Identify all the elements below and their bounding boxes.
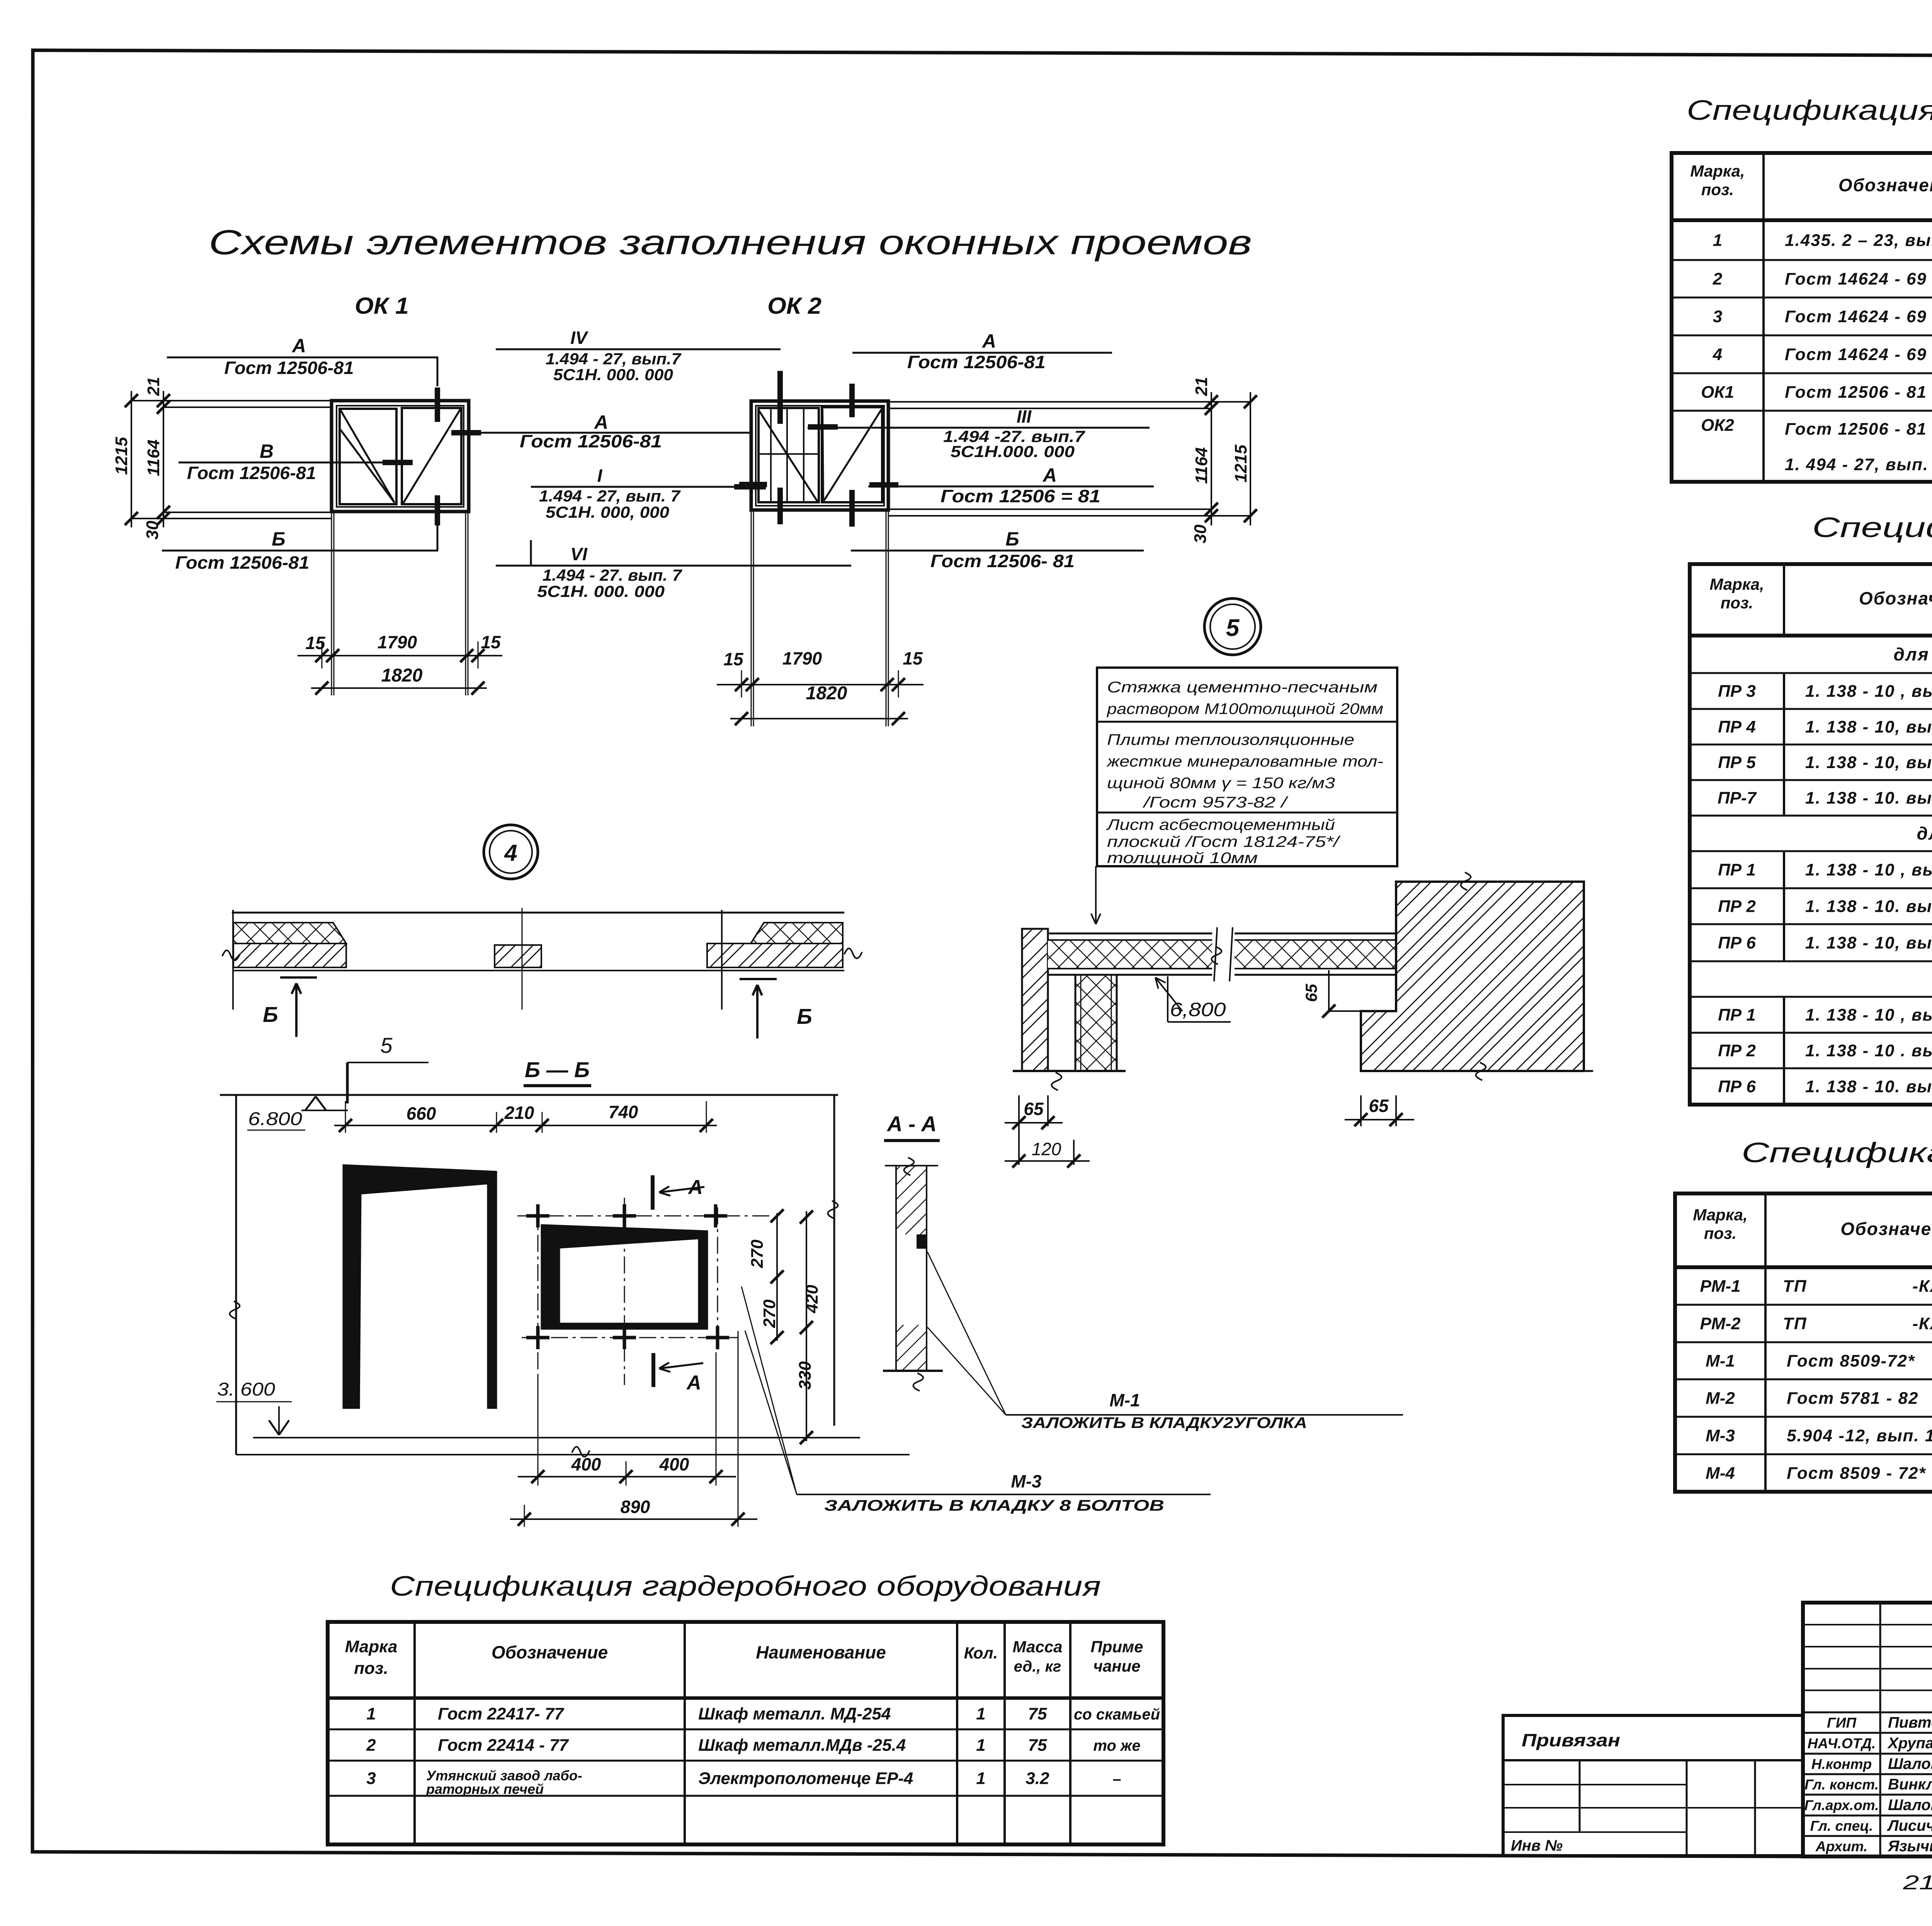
window schematic OK1 label [355, 293, 409, 319]
dimension 65 at slab step [1302, 970, 1361, 1018]
svg-text:5.904 -12, вып. 1-35: 5.904 -12, вып. 1-35 [1787, 1426, 1932, 1445]
svg-text:Гост 12506-81: Гост 12506-81 [520, 431, 662, 451]
svg-text:ОК 1: ОК 1 [355, 293, 409, 319]
svg-text:1. 138 - 10. вып. 1: 1. 138 - 10. вып. 1 [1805, 789, 1932, 807]
svg-text:1. 138 - 10 , вып. 3: 1. 138 - 10 , вып. 3 [1805, 1006, 1932, 1025]
left attachment table Привязан [1503, 1715, 1803, 1856]
svg-text:чание: чание [1093, 1657, 1140, 1675]
svg-text:Язычьян: Язычьян [1888, 1838, 1932, 1855]
svg-text:1. 138 - 10 , вып. 3: 1. 138 - 10 , вып. 3 [1805, 860, 1932, 879]
svg-text:Гост 8509-72*: Гост 8509-72* [1787, 1351, 1915, 1370]
dimension 65 bottom right of node 5 [1345, 1095, 1414, 1126]
svg-text:Гост 22417- 77: Гост 22417- 77 [438, 1705, 565, 1724]
svg-text:Кол.: Кол. [964, 1644, 998, 1662]
svg-text:Стяжка цементно-песчаным: Стяжка цементно-песчаным [1107, 679, 1378, 696]
section arrow Б left [263, 977, 317, 1037]
svg-text:330: 330 [796, 1361, 815, 1390]
svg-text:1.494 - 27, вып. 7: 1.494 - 27, вып. 7 [539, 487, 681, 505]
wall line right of Б-Б [828, 1095, 838, 1426]
svg-text:1.494 - 27, вып.7: 1.494 - 27, вып.7 [546, 350, 682, 368]
window OK2 right sash [822, 407, 882, 502]
svg-text:2: 2 [366, 1736, 376, 1755]
svg-text:1820: 1820 [806, 683, 847, 704]
svg-text:890: 890 [621, 1497, 650, 1517]
dimension chain 420-330 right of frame [796, 1210, 821, 1444]
main title: Схемы элементов заполнения оконных проемов [209, 223, 1252, 262]
svg-text:поз.: поз. [1721, 594, 1753, 612]
right masonry band hatched [707, 943, 843, 967]
svg-text:Гл. спец.: Гл. спец. [1810, 1818, 1873, 1834]
svg-text:А - А: А - А [886, 1112, 937, 1136]
leader A top for OK1 [167, 335, 438, 422]
svg-text:Гл.арх.от.: Гл.арх.от. [1804, 1797, 1879, 1813]
right insulation block cross-hatched [751, 923, 843, 943]
svg-text:Шкаф металл.МДв -25.4: Шкаф металл.МДв -25.4 [698, 1736, 906, 1755]
svg-text:щиной 80мм γ = 150 кг/м3: щиной 80мм γ = 150 кг/м3 [1107, 775, 1335, 792]
wall line left of Б-Б [230, 1095, 240, 1455]
svg-text:Приме: Приме [1091, 1638, 1143, 1656]
node 5 detail: floor line under wall [1013, 1071, 1126, 1090]
svg-text:для t°н = -20°C ; -30°C ; -: для t°н = -20°C ; -30°C ; - 40°C . [1894, 644, 1932, 665]
svg-text:Масса: Масса [1013, 1638, 1063, 1656]
svg-text:III: III [1017, 406, 1032, 427]
middle pier hatched [495, 945, 541, 967]
vertical dimension chain 21-1164-30 left of OK1 [112, 377, 332, 540]
svg-text:Б: Б [797, 1004, 812, 1028]
svg-text:420: 420 [803, 1285, 821, 1314]
svg-text:ПР 6: ПР 6 [1718, 1077, 1756, 1096]
svg-text:раторных печей: раторных печей [426, 1781, 544, 1797]
door frame left (black) of section Б-Б [343, 1165, 497, 1408]
svg-text:поз.: поз. [1704, 1224, 1736, 1243]
svg-text:Спецификация перемычек: Спецификация перемычек [1812, 512, 1932, 543]
left insulation block cross-hatched [233, 923, 346, 943]
table: спецификация закладных изделий [1675, 1193, 1932, 1492]
window OK2 left sash with vent panes [759, 408, 819, 502]
svg-text:М-3: М-3 [1011, 1471, 1042, 1491]
table title: Спецификация закладных изделий [1742, 1137, 1932, 1168]
leader Б bottom for OK2 [851, 528, 1144, 571]
svg-text:ПР 6: ПР 6 [1718, 933, 1756, 952]
svg-text:ПР 4: ПР 4 [1718, 717, 1756, 736]
elevation 3.600 of section Б-Б [216, 1379, 292, 1435]
leader I 1.494-27 вып.7 5С1Н.000,000 [531, 466, 766, 521]
svg-text:270: 270 [748, 1239, 767, 1268]
svg-text:Хрупало: Хрупало [1887, 1735, 1932, 1752]
svg-text:Привязан: Привязан [1522, 1730, 1620, 1750]
svg-text:М-3: М-3 [1706, 1426, 1735, 1445]
svg-text:жесткие минераловатные тол-: жесткие минераловатные тол- [1106, 753, 1383, 770]
svg-text:1.494 - 27. вып. 7: 1.494 - 27. вып. 7 [543, 566, 682, 584]
detail node 5 marker circle [1204, 598, 1261, 655]
svg-text:Пивторак: Пивторак [1888, 1714, 1932, 1731]
note box leader arrow [1091, 866, 1100, 924]
svg-text:21: 21 [144, 377, 163, 396]
svg-text:15: 15 [481, 632, 501, 652]
svg-text:1: 1 [976, 1769, 985, 1788]
floor level lines of section Б-Б [236, 1438, 910, 1457]
section arrow А bottom [653, 1353, 703, 1394]
svg-text:М-1: М-1 [1706, 1351, 1735, 1370]
svg-text:1790: 1790 [782, 648, 822, 668]
svg-text:1: 1 [1713, 231, 1722, 250]
svg-text:то же: то же [1093, 1737, 1140, 1754]
svg-text:В: В [260, 440, 274, 462]
svg-text:1790: 1790 [378, 632, 417, 652]
dimension 890 under frame [510, 1331, 757, 1527]
svg-text:ТП: ТП [1783, 1277, 1807, 1296]
svg-text:I: I [597, 466, 603, 486]
svg-text:/Гост 9573-82 /: /Гост 9573-82 / [1142, 794, 1289, 811]
svg-text:1215: 1215 [1231, 445, 1250, 483]
svg-text:Н.контр: Н.контр [1811, 1756, 1872, 1772]
svg-text:ОК1: ОК1 [1701, 383, 1734, 402]
centrelines of anchor frame [517, 1198, 772, 1385]
svg-text:Гост 12506 - 81: Гост 12506 - 81 [1785, 383, 1927, 402]
svg-text:поз.: поз. [1701, 180, 1734, 199]
leader A right for OK1 [451, 411, 750, 451]
leader 5 to section mark [347, 1033, 429, 1103]
elevation label 6,800 on node 5 [1155, 976, 1231, 1022]
svg-text:А: А [687, 1176, 703, 1198]
svg-text:Лисичкин: Лисичкин [1887, 1817, 1932, 1834]
svg-text:3. 600: 3. 600 [217, 1379, 275, 1400]
detail node 4 marker circle [484, 825, 538, 879]
table: спецификация элементов заполнения проемов [1672, 153, 1932, 482]
horizontal dimension 15-1790-15 under OK2 [717, 510, 923, 726]
svg-text:толщиной 10мм: толщиной 10мм [1107, 850, 1258, 867]
leader B for OK1 [179, 440, 413, 483]
svg-text:3.2: 3.2 [1026, 1769, 1049, 1788]
svg-text:Спецификация элементов зап: Спецификация элементов заполнения проемо… [1687, 95, 1932, 126]
dimension 400-400 under frame [518, 1352, 736, 1486]
svg-text:1. 494 - 27, вып. 7: 1. 494 - 27, вып. 7 [1785, 455, 1932, 474]
svg-text:6,800: 6,800 [1170, 999, 1226, 1020]
window OK1 frame [332, 401, 469, 512]
svg-text:ПР 2: ПР 2 [1718, 1041, 1756, 1060]
svg-text:IV: IV [570, 328, 588, 348]
svg-text:5С1Н. 000. 000: 5С1Н. 000. 000 [553, 365, 673, 384]
svg-text:1215: 1215 [112, 437, 131, 475]
svg-text:1. 138 - 10, вып. 1: 1. 138 - 10, вып. 1 [1805, 717, 1932, 736]
svg-text:210: 210 [504, 1103, 534, 1123]
svg-text:-КЖИ-280-СБ: -КЖИ-280-СБ [1912, 1277, 1932, 1296]
svg-text:1: 1 [976, 1736, 985, 1755]
svg-text:400: 400 [659, 1454, 689, 1474]
leader VI 1.494-27 вып.7 5С1Н.000.000 [496, 540, 851, 600]
svg-text:Обозначение: Обозначение [1840, 1219, 1932, 1239]
table title: Спецификация элементов заполнения проемов [1687, 95, 1932, 126]
svg-text:Гост 12506- 81: Гост 12506- 81 [930, 551, 1075, 571]
svg-text:ПР 5: ПР 5 [1718, 753, 1756, 772]
svg-text:1: 1 [976, 1705, 985, 1724]
svg-text:65: 65 [1302, 984, 1320, 1002]
svg-text:4: 4 [1713, 345, 1722, 364]
dimension 65 bottom left of node 5 [1005, 1095, 1063, 1129]
svg-text:ОК2: ОК2 [1701, 416, 1734, 435]
svg-text:15: 15 [305, 633, 326, 653]
svg-text:Лист асбестоцементный: Лист асбестоцементный [1105, 816, 1335, 833]
svg-text:270: 270 [760, 1299, 779, 1328]
leader III for OK2 [808, 406, 1150, 461]
section А-А jamb element [883, 1158, 943, 1391]
svg-text:М-1: М-1 [1109, 1390, 1140, 1410]
svg-text:30: 30 [1191, 524, 1210, 543]
window OK1 right sash [402, 408, 461, 504]
svg-text:5: 5 [380, 1033, 393, 1057]
node 5 detail: right masonry block hatched [1361, 872, 1593, 1080]
svg-text:ПР 1: ПР 1 [1718, 1006, 1756, 1025]
svg-text:Спецификация закладных из: Спецификация закладных изделий [1742, 1137, 1932, 1168]
svg-text:Гост 12506 = 81: Гост 12506 = 81 [940, 486, 1100, 506]
dimension chain 270-270 right of frame [748, 1209, 784, 1344]
leader М-1 заложить в кладку 2 уголка [927, 1252, 1403, 1431]
svg-text:1: 1 [366, 1705, 376, 1724]
svg-text:Спецификация гардеробного об: Спецификация гардеробного оборудования [390, 1571, 1101, 1602]
vertical dimension 1215 right of OK2 [1250, 392, 1251, 525]
svg-text:Шкаф металл. МД-254: Шкаф металл. МД-254 [698, 1705, 891, 1724]
svg-text:1164: 1164 [1192, 447, 1211, 484]
node 5 detail: left wall hatched [1022, 929, 1048, 1071]
svg-text:Гост 12506 - 81: Гост 12506 - 81 [1785, 420, 1927, 439]
svg-text:ПР 3: ПР 3 [1718, 682, 1756, 701]
svg-text:Б: Б [263, 1002, 278, 1027]
svg-text:120: 120 [1032, 1139, 1061, 1159]
leader М-3 заложить в кладку 8 болтов [742, 1287, 1211, 1514]
archive number 21180-01 9 [1903, 1872, 1932, 1894]
svg-text:А: А [686, 1372, 701, 1394]
svg-text:Гост 22414 - 77: Гост 22414 - 77 [438, 1736, 569, 1755]
section arrow А top [653, 1175, 704, 1210]
svg-text:А: А [1042, 464, 1057, 486]
svg-text:для t°н = - 30°C ; - 40°C: для t°н = - 30°C ; - 40°C [1917, 823, 1932, 843]
node 5 detail: partition column cross-hatched [1075, 975, 1117, 1071]
horizontal dimension 15-1790-15 under OK1 [298, 512, 502, 695]
svg-text:Гост 14624 - 69: Гост 14624 - 69 [1785, 270, 1927, 289]
horizontal dimension 1820 under OK1 [311, 687, 487, 689]
node 4 plan: lintel strip [222, 908, 862, 1010]
leader A middle for OK2 [868, 464, 1154, 506]
svg-text:Гост 12506-81: Гост 12506-81 [907, 352, 1046, 372]
svg-text:65: 65 [1369, 1096, 1389, 1116]
svg-text:ед., кг: ед., кг [1014, 1658, 1061, 1675]
svg-text:740: 740 [609, 1102, 638, 1122]
svg-text:М-4: М-4 [1706, 1464, 1735, 1483]
slab break symbol [1212, 930, 1235, 978]
level line 6.800 of section Б-Б [220, 1095, 838, 1130]
svg-text:1. 138 - 10 , вып. 1: 1. 138 - 10 , вып. 1 [1805, 682, 1932, 701]
window OK1 left sash opening diagonals [340, 410, 395, 503]
svg-text:30: 30 [143, 520, 162, 539]
svg-text:Гост 14624 - 69: Гост 14624 - 69 [1785, 307, 1927, 326]
svg-text:1. 138 - 10. вып. 1: 1. 138 - 10. вып. 1 [1805, 897, 1932, 916]
svg-text:660: 660 [406, 1103, 436, 1124]
table title: Спецификация перемычек [1812, 512, 1932, 543]
section arrow Б right [740, 979, 812, 1039]
svg-text:1. 138 - 10, вып. 1: 1. 138 - 10, вып. 1 [1805, 753, 1932, 772]
table: спецификация гардеробного оборудования [328, 1622, 1163, 1844]
svg-text:Гост 8509 - 72*: Гост 8509 - 72* [1787, 1464, 1926, 1483]
svg-text:1164: 1164 [144, 440, 163, 476]
svg-text:15: 15 [903, 648, 923, 668]
svg-text:ПР 2: ПР 2 [1718, 897, 1756, 916]
svg-text:1.435. 2 – 23, вып. 2: 1.435. 2 – 23, вып. 2 [1785, 231, 1932, 250]
section А-А title [884, 1112, 940, 1141]
svg-text:со скамьей: со скамьей [1074, 1706, 1160, 1723]
svg-text:4: 4 [504, 840, 517, 866]
svg-text:6.800: 6.800 [248, 1109, 302, 1129]
svg-text:Обозначение: Обозначение [1838, 175, 1932, 195]
svg-text:Марка: Марка [345, 1637, 398, 1656]
svg-text:ПР 1: ПР 1 [1718, 860, 1756, 879]
svg-text:3: 3 [366, 1769, 376, 1788]
svg-text:75: 75 [1028, 1705, 1047, 1724]
window OK1 left sash [340, 409, 396, 504]
svg-text:РМ-1: РМ-1 [1700, 1277, 1740, 1296]
svg-text:Винклев: Винклев [1888, 1776, 1932, 1793]
anchor frame right (black) of section Б-Б [541, 1225, 707, 1329]
svg-text:Марка,: Марка, [1693, 1206, 1747, 1224]
title block (stamp) [1803, 1603, 1932, 1862]
svg-text:1. 138 - 10, вып. 1: 1. 138 - 10, вып. 1 [1805, 933, 1932, 952]
svg-text:65: 65 [1024, 1099, 1044, 1119]
svg-text:ТП: ТП [1783, 1314, 1807, 1333]
svg-text:Плиты теплоизоляционные: Плиты теплоизоляционные [1107, 731, 1354, 748]
svg-text:15: 15 [723, 649, 744, 669]
svg-text:-КЖИ-290-СБ: -КЖИ-290-СБ [1912, 1314, 1932, 1333]
dimensions 660-210-740 of section Б-Б [334, 1101, 717, 1133]
svg-text:21180-01: 21180-01 [1903, 1872, 1932, 1894]
svg-text:Обозначение: Обозначение [1859, 588, 1932, 609]
window schematic OK2 label [767, 293, 821, 319]
window OK1 right sash opening diagonal [403, 409, 461, 503]
svg-text:Архит.: Архит. [1815, 1839, 1867, 1855]
table title: спецификация гардеробного оборудования [390, 1571, 1101, 1602]
svg-text:ЗАЛОЖИТЬ В КЛАДКУ 8 БОЛТОВ: ЗАЛОЖИТЬ В КЛАДКУ 8 БОЛТОВ [824, 1497, 1164, 1514]
svg-text:плоский /Гост 18124-75*/: плоский /Гост 18124-75*/ [1107, 833, 1341, 850]
node 5 detail: floor slab with insulation [1048, 927, 1396, 981]
svg-text:раствором М100толщиной 20мм: раствором М100толщиной 20мм [1107, 700, 1383, 717]
svg-text:Гост 12506-81: Гост 12506-81 [224, 358, 354, 378]
svg-text:Инв №: Инв № [1511, 1837, 1563, 1854]
left masonry band hatched [233, 943, 346, 967]
OK2 leader ticks [739, 384, 898, 527]
svg-text:Гл. конст.: Гл. конст. [1804, 1777, 1879, 1793]
svg-text:Гост 5781 - 82: Гост 5781 - 82 [1787, 1389, 1918, 1408]
svg-text:Схемы элементов заполнения: Схемы элементов заполнения оконных проем… [209, 223, 1252, 262]
svg-text:5: 5 [1226, 615, 1240, 641]
svg-text:Б: Б [1005, 528, 1019, 550]
svg-text:Гост 14624 - 69: Гост 14624 - 69 [1785, 345, 1927, 364]
svg-text:Наименование: Наименование [756, 1642, 886, 1663]
svg-text:2: 2 [1713, 270, 1723, 289]
svg-text:75: 75 [1028, 1736, 1047, 1755]
svg-text:Шаломеев: Шаломеев [1888, 1756, 1932, 1773]
svg-text:–: – [1112, 1771, 1121, 1788]
svg-text:Обозначение: Обозначение [492, 1642, 608, 1663]
svg-text:поз.: поз. [354, 1659, 388, 1678]
svg-text:5С1Н. 000. 000: 5С1Н. 000. 000 [537, 582, 665, 600]
svg-text:5С1Н.000. 000: 5С1Н.000. 000 [951, 442, 1075, 461]
svg-text:Марка,: Марка, [1709, 575, 1764, 593]
svg-text:ОК 2: ОК 2 [767, 293, 821, 319]
svg-text:Марка,: Марка, [1690, 162, 1745, 180]
svg-text:ПР-7: ПР-7 [1718, 789, 1757, 807]
svg-text:1820: 1820 [381, 665, 423, 686]
svg-text:РМ-2: РМ-2 [1700, 1314, 1741, 1333]
svg-text:ЗАЛОЖИТЬ В КЛАДКУ2УГОЛКА: ЗАЛОЖИТЬ В КЛАДКУ2УГОЛКА [1021, 1414, 1307, 1431]
svg-text:Б: Б [272, 528, 285, 550]
material notes box for node 5 [1097, 668, 1397, 867]
svg-text:1. 138 - 10. вып. 1: 1. 138 - 10. вып. 1 [1805, 1077, 1932, 1096]
leader IV 1.494-27 вып.7 5С1Н.000.000 [496, 328, 781, 424]
svg-text:VI: VI [570, 544, 588, 564]
horizontal dimension 1820 under OK2 [730, 718, 908, 719]
svg-text:М-2: М-2 [1706, 1389, 1735, 1408]
svg-text:5С1Н. 000, 000: 5С1Н. 000, 000 [546, 503, 669, 521]
svg-text:А: А [291, 335, 306, 357]
svg-text:400: 400 [571, 1454, 601, 1474]
svg-text:1. 138 - 10 . вып. 1: 1. 138 - 10 . вып. 1 [1805, 1041, 1932, 1060]
svg-text:ГИП: ГИП [1827, 1715, 1857, 1731]
window OK2 frame [751, 401, 888, 510]
svg-text:НАЧ.ОТД.: НАЧ.ОТД. [1808, 1736, 1876, 1751]
leader A top for OK2 [852, 330, 1112, 372]
svg-text:А: А [594, 411, 608, 433]
svg-text:А: А [981, 330, 996, 352]
svg-text:21: 21 [1192, 377, 1211, 396]
svg-text:3: 3 [1713, 307, 1722, 326]
dimension 120 bottom left of node 5 [1005, 1126, 1090, 1168]
section Б-Б title [524, 1057, 591, 1086]
svg-text:Гост 12506-81: Гост 12506-81 [187, 463, 316, 483]
svg-text:Шаломеев: Шаломеев [1888, 1797, 1932, 1814]
table: спецификация перемычек [1690, 564, 1932, 1105]
vertical dimension 1215 left of OK1 [131, 391, 132, 527]
svg-text:Гост 12506-81: Гост 12506-81 [175, 552, 310, 573]
vertical dimension chain 21-1164-30 right of OK2 [888, 377, 1257, 544]
svg-text:Электрополотенце ЕР-4: Электрополотенце ЕР-4 [698, 1769, 913, 1788]
svg-text:Б — Б: Б — Б [525, 1057, 590, 1082]
plan centreline [522, 908, 523, 1010]
leader Б bottom for OK1 [162, 495, 438, 573]
